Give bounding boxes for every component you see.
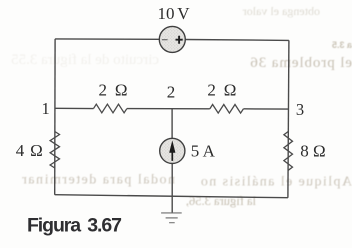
arrow of I1 (up)	[171, 147, 173, 161]
wire middle left segment (node 1 to R1)	[55, 107, 94, 109]
ground symbol	[161, 212, 182, 214]
bleed-through faint left line	[11, 52, 159, 68]
resistor R1 2ohm left	[94, 104, 127, 113]
svg-text:circuito de la figura 3.55: circuito de la figura 3.55	[11, 52, 159, 68]
minus sign of V1	[162, 39, 168, 41]
wire middle right segment (R2 to node 3)	[243, 108, 288, 110]
svg-text:2 Ω: 2 Ω	[207, 81, 238, 100]
resistor R4 8ohm (right branch zigzag)	[284, 132, 293, 171]
svg-text:obtenga el valor: obtenga el valor	[243, 4, 320, 18]
svg-text:Figura 3.67: Figura 3.67	[27, 215, 121, 237]
svg-text:Aplique el análisis no: Aplique el análisis no	[199, 175, 352, 190]
resistor R2 2ohm right	[210, 105, 244, 114]
wire bottom	[55, 195, 288, 198]
svg-text:1: 1	[42, 99, 50, 118]
bleed-through text de la figura 3.56	[186, 194, 256, 208]
svg-text:el problema 36: el problema 36	[249, 55, 352, 71]
voltage source V1 10V	[159, 26, 185, 52]
bleed-through fragment a 3.5	[332, 40, 352, 50]
resistor R3 4ohm (left branch zigzag)	[50, 132, 59, 169]
wire left vertical branch	[54, 39, 56, 195]
wire middle center segment (R1 to R2 through node 2)	[127, 108, 210, 110]
svg-text:2: 2	[167, 83, 176, 102]
current source I1 5A	[160, 138, 185, 163]
wire current source bottom to ground stub	[171, 163, 173, 212]
bleed-through text top-right line 1	[243, 4, 320, 18]
bleed-through text Aplique el analisis no	[199, 175, 352, 190]
wire node2 to current source top	[171, 109, 173, 139]
bleed-through text el problema 36	[249, 55, 352, 71]
svg-text:nodal para determinar: nodal para determinar	[21, 173, 175, 188]
svg-text:5 A: 5 A	[191, 141, 216, 160]
wire top left segment	[55, 38, 159, 40]
bleed-through text nodal para determinar	[21, 173, 175, 188]
svg-text:8 Ω: 8 Ω	[300, 142, 325, 161]
svg-text:10V: 10V	[158, 4, 191, 23]
wire right vertical branch	[288, 40, 289, 197]
wire top right segment	[185, 39, 289, 42]
svg-text:3: 3	[296, 100, 304, 119]
svg-text:2 Ω: 2 Ω	[99, 81, 130, 100]
svg-text:a 3.5: a 3.5	[332, 40, 352, 50]
svg-text:4 Ω: 4 Ω	[16, 141, 44, 160]
plus sign of V1	[176, 36, 183, 44]
